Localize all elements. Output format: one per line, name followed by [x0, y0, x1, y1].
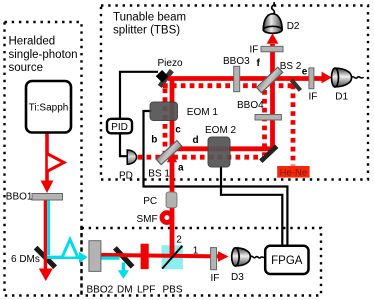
svg-text:PC: PC	[143, 196, 157, 207]
svg-text:D1: D1	[335, 92, 348, 103]
piezo mirror glass	[160, 71, 172, 87]
arrow into D1	[322, 72, 332, 84]
svg-text:BS 1: BS 1	[148, 169, 170, 180]
pulse symbol red	[48, 154, 64, 171]
IF filter at D2	[261, 46, 283, 52]
PBS cube fill	[162, 245, 183, 269]
svg-text:DM: DM	[117, 285, 133, 296]
svg-text:d: d	[193, 135, 199, 146]
svg-text:EOM 1: EOM 1	[187, 107, 219, 118]
cyan beam down from DM	[122, 263, 125, 271]
beam Ti:Sapph down	[45, 132, 49, 181]
svg-text:D2: D2	[287, 21, 300, 32]
arrow up into BS1	[167, 154, 177, 162]
Ti:Sapph laser box	[26, 81, 71, 133]
svg-text:BBO4: BBO4	[237, 100, 264, 111]
svg-text:FPGA: FPGA	[271, 255, 303, 267]
svg-text:1: 1	[193, 245, 199, 256]
He-Ne dotted beam: input from He-Ne	[291, 85, 296, 166]
cyan pulse symbol	[63, 240, 78, 257]
mirror bottom-right of interferometer	[261, 146, 277, 161]
He-Ne laser box	[277, 166, 309, 179]
He-Ne dotted beam: top arm	[163, 83, 295, 88]
IF filter at D1	[309, 68, 314, 89]
EOM 1	[150, 102, 178, 121]
svg-text:Ti:Sapph: Ti:Sapph	[29, 103, 69, 114]
SMF fiber loop	[162, 213, 172, 223]
PID controller box	[107, 119, 132, 134]
detector D3	[232, 248, 265, 266]
mirror for He-Ne injection	[291, 80, 300, 91]
BBO4 crystal	[255, 115, 281, 121]
solid beam: top arm to D1	[168, 76, 323, 81]
solid beam: bottom arm BS1 to mirror	[172, 146, 274, 151]
red beam below BBO1	[44, 200, 47, 269]
BBO2 crystal	[89, 241, 101, 272]
arrow up into D2	[267, 33, 279, 44]
PBS diagonal	[162, 246, 182, 269]
arrow into BBO1	[41, 181, 54, 194]
cyan beam below BBO1	[47, 200, 50, 255]
svg-text:c: c	[175, 125, 181, 136]
cyan arrow down	[118, 270, 129, 279]
svg-text:e: e	[302, 67, 308, 78]
mirror DM	[115, 248, 133, 267]
wire EOM1 to FPGA	[144, 111, 288, 246]
svg-text:LPF: LPF	[137, 285, 155, 296]
svg-text:Heralded: Heralded	[9, 36, 56, 48]
red dump arrow below 6 DMs	[39, 269, 53, 282]
wire piezo to PID	[120, 72, 158, 119]
He-Ne dotted beam: right arm through BBO4	[262, 90, 267, 155]
solid beam: vertical arm BS1-piezo and down to PBS	[170, 79, 175, 258]
He-Ne dotted beam: bottom arm	[138, 155, 263, 160]
svg-text:IF: IF	[309, 92, 318, 103]
detector PD	[127, 150, 136, 164]
IF filter at D3	[211, 248, 217, 270]
BS 2 beamsplitter	[256, 67, 282, 92]
cyan arrow into BBO2	[79, 252, 88, 263]
svg-text:PID: PID	[111, 122, 128, 133]
svg-text:PBS: PBS	[163, 285, 183, 296]
svg-text:SMF: SMF	[137, 214, 158, 225]
cyan beam BBO2 to DM (below red)	[101, 257, 120, 260]
dotted box: bottom detection box	[82, 228, 322, 296]
detector D2	[263, 2, 282, 33]
svg-text:IF: IF	[250, 45, 259, 56]
svg-text:b: b	[151, 135, 157, 146]
arrow into D3	[218, 251, 229, 261]
PC polarization controller	[166, 192, 177, 208]
svg-text:PD: PD	[119, 171, 133, 182]
dotted box: heralded single-photon source	[5, 22, 82, 296]
svg-text:splitter (TBS): splitter (TBS)	[113, 25, 180, 37]
detector D1	[332, 68, 364, 87]
He-Ne dotted beam: left arm	[163, 88, 168, 155]
svg-text:2: 2	[176, 235, 182, 246]
svg-text:single-photon: single-photon	[9, 49, 78, 61]
svg-text:BBO2: BBO2	[87, 285, 114, 296]
mirror 6 DMs	[36, 248, 56, 268]
svg-text:Tunable beam: Tunable beam	[113, 12, 186, 24]
BBO1 crystal	[32, 194, 63, 201]
svg-text:a: a	[178, 163, 184, 174]
svg-text:BBO1: BBO1	[6, 192, 33, 203]
svg-text:BS 2: BS 2	[280, 61, 302, 72]
BBO3 crystal	[234, 66, 240, 91]
solid beam: right arm BS2 down to mirror	[270, 44, 275, 150]
svg-text:Piezo: Piezo	[158, 58, 183, 69]
wire EOM2 to FPGA	[221, 166, 282, 246]
svg-text:D3: D3	[231, 272, 244, 283]
EOM 2	[208, 137, 230, 167]
wire PID to PD	[120, 133, 127, 156]
dotted box: tunable beam splitter (TBS)	[101, 6, 368, 180]
BS 1 beamsplitter	[156, 141, 181, 165]
piezo actuator diamond	[156, 70, 169, 82]
svg-text:source: source	[9, 62, 44, 74]
cyan beam right to BBO2	[47, 256, 80, 259]
red beam BBO2 to PBS to D3	[98, 255, 219, 257]
svg-text:IF: IF	[211, 273, 220, 284]
svg-text:EOM 2: EOM 2	[205, 125, 237, 136]
svg-text:He-Ne: He-Ne	[280, 168, 307, 179]
LPF filter	[141, 244, 149, 269]
svg-text:6 DMs: 6 DMs	[11, 254, 40, 265]
FPGA box	[265, 246, 308, 274]
svg-text:BBO3: BBO3	[223, 56, 250, 67]
